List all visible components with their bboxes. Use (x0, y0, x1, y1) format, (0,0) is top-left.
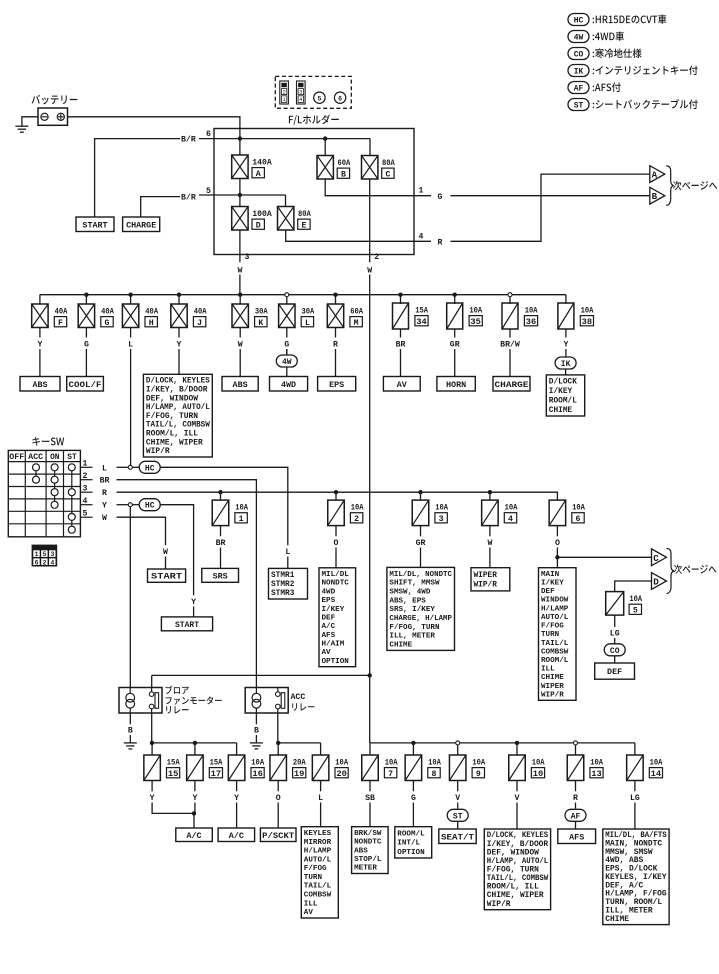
svg-text:60A: 60A (338, 159, 351, 168)
svg-text:15: 15 (168, 770, 179, 779)
fuse 20 10A (320, 743, 322, 755)
svg-text:3: 3 (439, 515, 444, 524)
svg-text:ACC: ACC (28, 454, 43, 462)
svg-text:6: 6 (35, 559, 39, 566)
svg-text:LG: LG (630, 794, 640, 803)
svg-text:BR: BR (216, 539, 226, 548)
START box (line 6) (76, 217, 114, 232)
svg-text:TAIL/L: TAIL/L (541, 640, 569, 648)
svg-text:D/LOCK: D/LOCK (549, 379, 577, 387)
wire color G under fuse L (286, 328, 288, 338)
svg-text:GR: GR (450, 340, 460, 349)
blower fan motor relay (119, 688, 162, 714)
svg-text:COOL/F: COOL/F (69, 381, 102, 390)
wire battery negative to ground (22, 117, 38, 126)
fuse 1 10A (220, 492, 222, 500)
wire color W under fuse K (239, 328, 241, 338)
svg-text:10A: 10A (581, 307, 594, 316)
svg-text:WIP/R: WIP/R (146, 447, 170, 456)
svg-text:O: O (334, 539, 339, 548)
battery (38, 108, 68, 125)
svg-text:CHIME, WIPER: CHIME, WIPER (146, 438, 203, 447)
fusible link J 40A (178, 295, 180, 304)
wire color R under fuse 13 (575, 780, 577, 791)
next page arrow D (652, 573, 667, 590)
fusible link G 40A (85, 295, 87, 304)
A/C box 1 (176, 828, 213, 842)
svg-text:START: START (151, 573, 182, 582)
svg-text:E: E (301, 221, 306, 230)
svg-text:MAIN: MAIN (541, 571, 560, 579)
svg-text:DEF: DEF (607, 667, 622, 677)
svg-text:C: C (653, 553, 659, 564)
svg-text:1: 1 (419, 187, 424, 196)
START box 1 (key W) (148, 569, 186, 582)
svg-text:R: R (573, 794, 578, 803)
svg-text:R: R (333, 340, 338, 349)
svg-text:HC: HC (145, 464, 155, 473)
wire color O under fuse 2 (335, 525, 337, 536)
svg-text:14: 14 (651, 770, 662, 779)
svg-text:BR: BR (100, 477, 110, 486)
wire color Y under fuse J (178, 328, 180, 338)
wire color Y under fuse 17 (194, 780, 196, 791)
svg-text:SRS: SRS (213, 571, 228, 581)
svg-text:CHARGE: CHARGE (126, 220, 156, 230)
svg-text:O: O (555, 539, 560, 548)
svg-text:CHIME: CHIME (541, 674, 564, 682)
svg-text:BRK/SW: BRK/SW (354, 830, 382, 838)
svg-text:AFS: AFS (322, 632, 336, 640)
ST oval (fuse 9) (447, 809, 468, 821)
load box MIL/DL (fuse 2) (319, 568, 356, 667)
svg-text:I/KEY: I/KEY (322, 606, 345, 614)
svg-text:A/C: A/C (322, 623, 336, 631)
svg-text:H/AIM: H/AIM (322, 640, 345, 648)
svg-text:AUTO/L: AUTO/L (304, 856, 332, 864)
wire W fuse C down to relay feed (369, 275, 371, 676)
svg-text:STMR1: STMR1 (271, 572, 295, 580)
wire color O under fuse 19 (277, 780, 279, 791)
fuse 5 10A (606, 592, 624, 616)
STMR box (key L) (269, 568, 308, 599)
svg-text:L: L (285, 548, 290, 557)
svg-text:ILL, METER: ILL, METER (389, 633, 435, 641)
svg-text:CO: CO (610, 647, 620, 656)
svg-text:SHIFT, MMSW: SHIFT, MMSW (389, 580, 440, 588)
fusible link K 30A (239, 295, 241, 304)
svg-text:Y: Y (150, 794, 155, 803)
key switch pin stubs 1-5 (80, 466, 92, 468)
wire Y to START 2 (160, 505, 193, 596)
svg-text:COMBSW: COMBSW (304, 892, 332, 900)
wire color L under fuse H (130, 328, 132, 338)
load box D/LOCK KEYLES (fuse 10) (484, 829, 550, 910)
wire line 5 into fuse block (199, 194, 286, 196)
svg-text:TURN: TURN (304, 874, 323, 882)
svg-text:4W: 4W (574, 34, 584, 43)
fuse 35 10A (454, 295, 456, 304)
4WD box (fuse L) (270, 377, 308, 392)
node line6-battery (238, 136, 242, 140)
svg-text:J: J (197, 319, 202, 328)
svg-text:NONDTC: NONDTC (354, 839, 382, 847)
wire W to START 1 (117, 517, 166, 545)
svg-text:ACC: ACC (291, 693, 306, 702)
svg-text:10A: 10A (351, 504, 364, 513)
svg-text:19: 19 (294, 770, 305, 779)
svg-text:ABS: ABS (354, 847, 368, 855)
svg-text:4WD: 4WD (281, 380, 296, 390)
svg-text:G: G (84, 340, 89, 349)
fusible link L 30A (286, 295, 288, 304)
svg-text:TAIL/L: TAIL/L (304, 883, 332, 891)
svg-text:B/R: B/R (181, 135, 196, 145)
key switch label (32, 437, 64, 446)
relay1 fuse bus (152, 742, 237, 744)
svg-text:3: 3 (83, 484, 88, 493)
svg-text:40A: 40A (194, 308, 207, 317)
svg-text:OPTION: OPTION (397, 849, 425, 857)
relay feed line from W wire (152, 674, 370, 676)
wire L to STMR (160, 467, 288, 545)
svg-text:10A: 10A (532, 759, 545, 768)
legend ST (568, 99, 589, 111)
svg-text:1: 1 (35, 551, 39, 558)
ACC relay (245, 688, 288, 714)
load box MIL/DL BA/FTS (fuse 14) (603, 829, 669, 925)
svg-text:140A: 140A (252, 159, 272, 168)
svg-text:P/SCKT: P/SCKT (262, 832, 294, 841)
svg-text:TAIL/L, COMBSW: TAIL/L, COMBSW (146, 421, 210, 430)
wire color SB under fuse 7 (369, 780, 371, 791)
svg-text:R: R (438, 239, 443, 248)
svg-text:MIL/DL: MIL/DL (322, 571, 350, 579)
svg-text:W: W (238, 340, 243, 349)
svg-text:5: 5 (83, 509, 88, 518)
svg-text:ABS: ABS (32, 380, 47, 390)
svg-text:H/LAMP, AUTO/L: H/LAMP, AUTO/L (146, 403, 210, 412)
wire color V under fuse 10 (516, 780, 518, 791)
DEF box (fuse 5) (595, 663, 635, 679)
key switch table (8, 450, 80, 536)
next page arrow B (650, 187, 665, 204)
svg-text:C: C (385, 170, 390, 179)
load box MIL/DL NONDTC (fuse 3) (387, 567, 455, 650)
svg-text:2: 2 (354, 515, 359, 524)
fusible link H 40A (130, 295, 132, 304)
brace next page (bottom) (667, 549, 675, 594)
svg-text:10A: 10A (385, 759, 398, 768)
svg-text:4W: 4W (282, 358, 292, 367)
fuse 13 10A (575, 743, 577, 755)
svg-text:STMR2: STMR2 (271, 581, 295, 589)
svg-text:D: D (256, 221, 261, 230)
AF oval (fuse 13) (565, 809, 586, 821)
svg-text:L: L (102, 464, 107, 473)
svg-text:K: K (258, 319, 263, 328)
svg-text:5: 5 (43, 551, 47, 558)
svg-text:4: 4 (50, 559, 54, 566)
svg-text:40A: 40A (145, 308, 158, 317)
wire color R under fuse M (335, 328, 337, 338)
svg-text:V: V (455, 794, 460, 803)
wire color L under fuse 20 (320, 780, 322, 791)
svg-text:O: O (276, 794, 281, 803)
svg-text:Y: Y (563, 340, 568, 349)
fuse 10 10A (516, 743, 518, 755)
svg-text:10A: 10A (428, 759, 441, 768)
svg-text:AV: AV (397, 380, 408, 390)
svg-text:G: G (411, 794, 416, 803)
wire battery positive to F/L holder line 6 (68, 117, 240, 139)
svg-text:7: 7 (388, 770, 393, 779)
svg-text:A/C: A/C (187, 831, 202, 841)
svg-text:10A: 10A (335, 759, 348, 768)
fuse 2 10A (335, 492, 337, 500)
svg-text:HORN: HORN (446, 380, 466, 390)
COOL/F box (fuse G) (67, 377, 104, 392)
wire color Y under fuse 16 (236, 780, 238, 791)
svg-text:WIPER: WIPER (541, 683, 564, 691)
wire fuse20 to KEYLES box (320, 803, 322, 827)
svg-text:START: START (82, 220, 107, 230)
svg-text:10A: 10A (469, 307, 482, 316)
next page label (top) (673, 181, 717, 190)
svg-text:WIP/R: WIP/R (487, 900, 511, 909)
svg-text:Y: Y (192, 794, 197, 803)
CO oval (604, 644, 625, 656)
wire color V under fuse 9 (457, 780, 459, 791)
wire color LG under fuse 14 (634, 780, 636, 791)
wire W down to bus 3 (369, 675, 371, 743)
wire fuse8 to ROOM/L box (412, 803, 414, 827)
svg-text:ILL: ILL (541, 666, 555, 674)
svg-text:B: B (128, 727, 133, 736)
START box 2 (key Y) (161, 617, 212, 631)
svg-text:1: 1 (239, 515, 244, 524)
svg-text:40A: 40A (101, 308, 114, 317)
svg-text:H: H (149, 319, 154, 328)
svg-text:AFS: AFS (569, 832, 584, 842)
svg-text:KEYLES: KEYLES (304, 830, 332, 838)
ground battery (15, 125, 28, 127)
wire relay1 contact to feed (151, 675, 153, 687)
svg-text:NONDTC: NONDTC (322, 580, 350, 588)
svg-text:COMBSW: COMBSW (541, 648, 569, 656)
fusible link D 100A (232, 207, 248, 231)
svg-text:8: 8 (432, 770, 437, 779)
svg-text:START: START (175, 621, 199, 630)
wire color G under fuse G (85, 328, 87, 338)
ground blower relay (124, 742, 137, 744)
svg-text:L: L (305, 319, 310, 328)
wire color G under fuse 8 (412, 780, 414, 791)
svg-text:10A: 10A (235, 504, 248, 513)
wire color O under fuse 6 (556, 525, 558, 536)
wire fuse7 to BRK/SW box (369, 803, 371, 827)
node fuse6 to arrow C (555, 555, 559, 559)
svg-text:AV: AV (304, 909, 314, 917)
svg-text:10A: 10A (572, 504, 585, 513)
wire color BR under fuse 1 (220, 525, 222, 536)
svg-text:36: 36 (526, 318, 537, 327)
svg-text:STOP/L: STOP/L (354, 856, 382, 864)
svg-text:100A: 100A (252, 210, 272, 219)
svg-text:CHARGE, H/LAMP: CHARGE, H/LAMP (389, 615, 452, 623)
wire fuse10 to D/LOCK box (516, 803, 518, 830)
wire line 6 B/R from START (95, 139, 180, 217)
wire color W under fuse 4 (489, 525, 491, 536)
legend 4W (568, 31, 589, 43)
fuse 4 10A (489, 492, 491, 500)
legend AF (568, 82, 589, 94)
svg-text:4: 4 (508, 515, 513, 524)
svg-text:30A: 30A (255, 308, 268, 317)
svg-text:W: W (102, 514, 107, 523)
svg-text:EPS: EPS (322, 597, 336, 605)
svg-text:CHIME: CHIME (605, 915, 629, 924)
fusible link M 60A (335, 295, 337, 304)
svg-text:WIPER: WIPER (474, 572, 498, 580)
svg-text:AF: AF (571, 812, 581, 821)
F/L holder dashed outline (275, 76, 351, 108)
P/SCKT box (260, 828, 296, 842)
fuse 34 15A (400, 295, 402, 304)
svg-text:10A: 10A (629, 595, 642, 604)
node line6-fuseB (323, 136, 327, 140)
EPS box (fuse M) (318, 377, 356, 392)
svg-text:10: 10 (533, 770, 544, 779)
svg-text:BR: BR (396, 340, 406, 349)
wire line 6 into fuse block (199, 138, 370, 140)
A/C box 2 (218, 828, 255, 842)
fuse block outline box (214, 129, 414, 255)
wire color Y under fuse 15 (151, 780, 153, 791)
bus 3 horizontal (370, 742, 635, 744)
svg-text:A/C: A/C (229, 831, 244, 841)
wire blower relay coil feed (129, 507, 131, 688)
svg-text:G: G (284, 340, 289, 349)
AV box (fuse 34) (383, 377, 420, 392)
svg-text:6: 6 (338, 96, 342, 103)
svg-text:F/FOG: F/FOG (541, 623, 564, 631)
wire color BR/W under fuse 36 (509, 329, 511, 338)
svg-text:WIP/R: WIP/R (541, 691, 564, 699)
svg-text:30A: 30A (302, 308, 315, 317)
svg-text:I/KEY, B/DOOR: I/KEY, B/DOOR (146, 385, 208, 394)
CHARGE box (line 5) (123, 217, 160, 232)
wire fuse15+17 merge to A/C (152, 803, 194, 814)
svg-text:ROOM/L: ROOM/L (541, 657, 569, 665)
WIPER box (fuse 4) (471, 568, 510, 591)
svg-text:IK: IK (561, 360, 571, 369)
svg-text:A: A (652, 170, 658, 181)
wire fuse J Y down to load box (178, 349, 180, 374)
wire R feeds fuse row 2 (117, 492, 558, 500)
svg-text:3: 3 (50, 551, 54, 558)
svg-text:G: G (105, 319, 110, 328)
svg-text:DEF: DEF (322, 614, 336, 622)
svg-text:H/LAMP: H/LAMP (304, 848, 332, 856)
svg-text:D/LOCK, KEYLES: D/LOCK, KEYLES (146, 377, 210, 386)
svg-text:ROOM/L: ROOM/L (549, 398, 577, 406)
svg-text:15A: 15A (210, 759, 223, 768)
wire relay1 contact to fuse bus (151, 713, 153, 743)
load box ROOM/L (fuse 8) (395, 827, 432, 858)
svg-text:DEF, WINDOW: DEF, WINDOW (146, 394, 198, 403)
svg-text:2: 2 (374, 253, 379, 262)
wire to next page arrow C (557, 556, 651, 558)
svg-text:60A: 60A (350, 308, 363, 317)
legend CO (568, 48, 589, 60)
svg-text:38: 38 (582, 318, 593, 327)
svg-text:ABS: ABS (233, 380, 248, 390)
svg-text:10A: 10A (472, 759, 485, 768)
fusible link A 140A (239, 139, 241, 155)
svg-text:WINDOW: WINDOW (541, 597, 569, 605)
svg-text:13: 13 (591, 770, 602, 779)
svg-text:40A: 40A (55, 308, 68, 317)
svg-text:ST: ST (574, 102, 584, 111)
wire fuse C down exits block pin 2 (369, 179, 371, 262)
fuse 8 10A (412, 743, 414, 755)
brace next page (top) (666, 166, 674, 205)
F/L holder circle 5 (314, 92, 325, 103)
svg-text:F/FOG: F/FOG (304, 865, 327, 873)
svg-text:AUTO/L: AUTO/L (541, 614, 569, 622)
svg-text:CO: CO (574, 51, 584, 60)
SEAT/T box (439, 829, 476, 844)
svg-text:IK: IK (574, 68, 584, 77)
svg-text:HC: HC (574, 17, 584, 26)
svg-text:W: W (367, 266, 372, 275)
svg-text:MIL/DL, NONDTC: MIL/DL, NONDTC (389, 571, 452, 579)
svg-text:ROOM/L: ROOM/L (397, 830, 425, 838)
svg-text:H/LAMP: H/LAMP (541, 605, 569, 613)
key switch contact lines (35, 467, 37, 479)
wire relay2 coil to ground (255, 713, 257, 724)
fuse 36 10A (509, 295, 511, 304)
F/L holder label (289, 115, 339, 126)
fuse 3 10A (420, 492, 422, 500)
wire fuse19 to P/SCKT (277, 803, 279, 829)
blower relay label (165, 686, 188, 694)
svg-text:SRS, I/KEY: SRS, I/KEY (389, 606, 435, 614)
wire color GR under fuse 3 (420, 525, 422, 536)
wire relay1 coil to ground (129, 713, 131, 724)
fuse 7 10A (369, 743, 371, 755)
wire fuse14 to MIL/DL box (634, 803, 636, 830)
svg-text:Y: Y (177, 340, 182, 349)
battery label (31, 95, 77, 105)
svg-text:INT/L: INT/L (397, 840, 420, 848)
svg-text:5: 5 (633, 607, 638, 616)
svg-text:CHARGE: CHARGE (495, 381, 529, 390)
svg-text:STMR3: STMR3 (271, 590, 295, 598)
svg-text:80A: 80A (298, 210, 311, 219)
svg-text:SMSW, 4WD: SMSW, 4WD (389, 588, 430, 596)
load box BRK/SW (fuse 7) (352, 827, 389, 874)
svg-text:10A: 10A (525, 307, 538, 316)
AFS box (558, 829, 596, 844)
legend IK (568, 65, 589, 77)
F/L holder link 3-4 (297, 81, 306, 104)
svg-text:2: 2 (83, 472, 88, 481)
wire LG under fuse 5 (614, 615, 616, 627)
fuse 17 15A (194, 743, 196, 755)
wire fuse A to line 5 (239, 179, 241, 207)
